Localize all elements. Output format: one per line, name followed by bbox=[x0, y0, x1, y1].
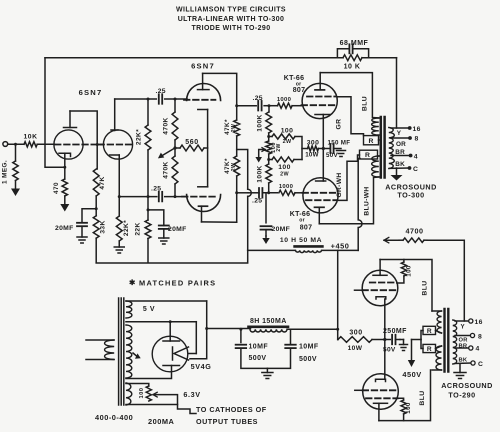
resistor 470 cathode V1 bbox=[64, 167, 66, 179]
svg-text:200MA: 200MA bbox=[148, 417, 174, 426]
TO-290 primary upper bbox=[432, 310, 442, 312]
wire 33K to rail bbox=[95, 238, 97, 262]
resistor 47K bbox=[93, 169, 99, 196]
svg-text:6SN7: 6SN7 bbox=[191, 62, 215, 71]
resistor 300 10W TO-290 bbox=[337, 339, 339, 341]
svg-text:100K: 100K bbox=[257, 114, 264, 131]
KT-66 no1 grid dashed bbox=[302, 104, 336, 106]
svg-text:22K*: 22K* bbox=[123, 220, 130, 236]
V6 grid dashed bbox=[363, 389, 396, 391]
TO-300 tap C bbox=[390, 167, 409, 169]
10MF loop left bbox=[240, 329, 242, 342]
power transformer core bbox=[118, 298, 120, 405]
svg-text:MATCHED PAIRS: MATCHED PAIRS bbox=[139, 279, 216, 288]
stub to plate bar bbox=[169, 322, 171, 341]
TO-300 primary winding upper bbox=[372, 118, 379, 135]
plate node wire V2 to .25 upper bbox=[115, 98, 157, 100]
5V4G plate top bbox=[163, 340, 180, 342]
svg-text:R: R bbox=[427, 328, 432, 335]
V4 plate wire bbox=[202, 221, 237, 223]
TO-290 core bbox=[443, 309, 445, 372]
resistor box R lower bbox=[360, 150, 378, 159]
wire .25 lower to V4 grid bbox=[165, 196, 187, 198]
V5 plate wire to TO-290 bbox=[380, 260, 432, 312]
TO-290 tap C bbox=[455, 362, 471, 365]
resistor 100 screen no1 bbox=[403, 260, 405, 263]
TO-290 R box feed bbox=[421, 331, 423, 340]
svg-text:10 K: 10 K bbox=[344, 64, 361, 71]
V5 grid stub bbox=[355, 289, 364, 291]
screen wire GR bbox=[337, 97, 363, 136]
wire 560 to cathodes bbox=[204, 147, 208, 149]
svg-text:2W: 2W bbox=[276, 143, 282, 151]
svg-text:Y: Y bbox=[397, 130, 402, 137]
ground 150MF bbox=[334, 148, 341, 150]
choke 10H 50MA bbox=[295, 245, 323, 248]
wire V3 plate to 47K rail bbox=[203, 73, 237, 120]
potentiometer 100 2W hum balance bbox=[266, 141, 272, 154]
svg-text:2W: 2W bbox=[280, 172, 289, 178]
resistor 470K lower bbox=[172, 156, 178, 184]
svg-text:47K*: 47K* bbox=[224, 158, 231, 174]
svg-text:8: 8 bbox=[478, 334, 482, 341]
svg-text:8H 150MA: 8H 150MA bbox=[250, 318, 287, 325]
B+ rail corner bbox=[96, 250, 248, 263]
tube V1 6SN7a envelope bbox=[54, 130, 83, 159]
svg-text:8: 8 bbox=[415, 136, 419, 143]
svg-text:10 H 50 MA: 10 H 50 MA bbox=[280, 237, 322, 244]
wire 22K to rail bbox=[147, 239, 149, 263]
resistor 22K lower bbox=[147, 197, 149, 220]
lower coupling tap to KT-66 no2 bbox=[237, 192, 248, 194]
svg-text:4700: 4700 bbox=[406, 227, 424, 236]
ground 250MF bbox=[396, 339, 401, 341]
svg-text:10W: 10W bbox=[305, 152, 319, 159]
tube V6 triode lower bbox=[363, 374, 399, 410]
resistor box R upper TO-290 bbox=[423, 326, 436, 334]
heater pot wiper bbox=[154, 395, 196, 414]
svg-text:2W: 2W bbox=[283, 139, 292, 145]
resistor 10K input bbox=[24, 142, 37, 147]
svg-text:470: 470 bbox=[53, 182, 60, 194]
wire 47K* lower to V4 plate bbox=[236, 176, 238, 222]
resistor 47K* lower 2W bbox=[236, 150, 238, 157]
TO-290 primary lower bbox=[436, 346, 442, 349]
svg-text:C: C bbox=[413, 166, 418, 173]
ground 20MF right bbox=[159, 237, 169, 239]
capacitor .25 upper coupling bbox=[158, 94, 160, 104]
svg-text:GR-WH: GR-WH bbox=[336, 172, 343, 197]
10MF loop right bbox=[267, 349, 290, 368]
resistor 22K* plate load bbox=[147, 99, 149, 125]
svg-text:.25: .25 bbox=[151, 185, 161, 192]
450V feed marker bbox=[412, 339, 422, 341]
svg-text:33K: 33K bbox=[100, 220, 107, 233]
V1 cathode bbox=[59, 153, 71, 156]
upper coupling tap bbox=[237, 105, 257, 107]
capacitor .25 to KT-66 no1 bbox=[257, 101, 259, 111]
V6 screen wire bbox=[398, 398, 404, 400]
TO-300 tap 8 bbox=[391, 137, 409, 139]
tube V3 6SN7 dome bbox=[187, 84, 221, 101]
feedback rail to output bbox=[362, 57, 397, 59]
svg-text:20MF: 20MF bbox=[272, 226, 291, 233]
svg-text:470K: 470K bbox=[163, 117, 170, 134]
svg-text:BLU-WH: BLU-WH bbox=[363, 186, 370, 215]
ground 470 bbox=[64, 196, 66, 204]
wire 100 no1 to cathode bus bbox=[295, 137, 302, 160]
input terminal bbox=[3, 142, 8, 147]
svg-text:R: R bbox=[369, 138, 374, 145]
svg-text:10MF: 10MF bbox=[249, 344, 269, 351]
svg-text:TRIODE WITH TO-290: TRIODE WITH TO-290 bbox=[191, 25, 270, 32]
KT-66 no2 grid dashed bbox=[303, 192, 337, 194]
svg-text:20MF: 20MF bbox=[55, 225, 74, 232]
wire 1000 to KT-66 no1 grid bbox=[292, 105, 303, 107]
resistor 100 2W cathode no1 bbox=[269, 136, 272, 138]
V5 grid dashed bbox=[362, 289, 395, 291]
svg-text:300: 300 bbox=[307, 140, 320, 147]
ground 20MF left bbox=[77, 236, 87, 238]
shared cathode vertical bbox=[207, 110, 209, 187]
V5 cathode bbox=[376, 297, 386, 299]
choke output wire bbox=[288, 328, 338, 330]
V2 plate bbox=[111, 129, 118, 131]
node 100K/100 pot bbox=[268, 133, 270, 141]
wire cathode to 22K* splitter bbox=[118, 197, 120, 216]
svg-text:100: 100 bbox=[281, 128, 294, 135]
V5 plate bbox=[373, 274, 387, 276]
svg-text:TO-290: TO-290 bbox=[448, 391, 475, 400]
svg-text:500V: 500V bbox=[299, 356, 317, 363]
svg-text:BK: BK bbox=[459, 358, 468, 364]
svg-text:ULTRA-LINEAR WITH TO-300: ULTRA-LINEAR WITH TO-300 bbox=[178, 16, 285, 23]
svg-text:20MF: 20MF bbox=[168, 226, 187, 233]
resistor 4700 bbox=[399, 239, 403, 241]
5V winding bbox=[126, 301, 132, 318]
svg-text:560: 560 bbox=[185, 139, 198, 146]
svg-text:TO-300: TO-300 bbox=[397, 191, 424, 200]
resistor 1000 grid no2 bbox=[279, 190, 295, 195]
svg-text:50V: 50V bbox=[326, 152, 338, 159]
wire 47K to 33K node bbox=[95, 196, 97, 216]
svg-text:10W: 10W bbox=[348, 345, 363, 352]
power transformer primary bbox=[86, 339, 114, 341]
balance chain top bbox=[268, 106, 270, 112]
capacitor 10MF first bbox=[236, 344, 247, 346]
V2 grid dashed bbox=[99, 144, 133, 146]
svg-text:WILLIAMSON TYPE CIRCUITS: WILLIAMSON TYPE CIRCUITS bbox=[176, 7, 286, 14]
B+ jog between 47K* pair bbox=[237, 136, 248, 189]
svg-text:150 MF: 150 MF bbox=[328, 140, 351, 147]
svg-text:Y: Y bbox=[461, 324, 466, 331]
TO-300 core bbox=[380, 117, 383, 178]
resistor 47K* upper 2W bbox=[234, 120, 240, 136]
wire 10K to V1 grid bbox=[37, 143, 54, 145]
KT-66 no1 cathode bbox=[315, 114, 330, 116]
V6 plate bbox=[374, 402, 388, 404]
V5 screen dashed bbox=[370, 282, 397, 284]
resistor 470K upper bbox=[174, 99, 176, 112]
node pot/100K lower bbox=[268, 154, 270, 164]
resistor 100 2W cathode no2 bbox=[269, 159, 272, 161]
svg-text:5V4G: 5V4G bbox=[191, 362, 212, 371]
TO-300 primary winding lower bbox=[372, 156, 379, 177]
svg-text:300: 300 bbox=[349, 330, 362, 337]
balance arrow driver bbox=[163, 149, 175, 156]
wire V1 plate link to V2 grid bbox=[70, 111, 97, 169]
svg-text:R: R bbox=[365, 152, 370, 159]
svg-text:BR: BR bbox=[395, 149, 405, 156]
capacitor 250MF 50V bbox=[391, 335, 393, 345]
capacitor 10MF second bbox=[285, 344, 296, 346]
capacitor 20MF right bbox=[148, 210, 164, 226]
TO-290 secondary ground bbox=[459, 364, 461, 373]
TO-300 tap 16 bbox=[391, 127, 409, 129]
tube 5V4G envelope bbox=[152, 336, 188, 372]
hop over lower grid wire bbox=[248, 189, 252, 196]
svg-text:+450: +450 bbox=[331, 242, 350, 251]
V1 grid dashed bbox=[55, 144, 103, 146]
HV center tap arrow bbox=[133, 353, 137, 357]
capacitor 68 MMF bbox=[337, 49, 348, 58]
resistor 33K bbox=[93, 216, 99, 238]
TO-300 secondary winding bbox=[389, 128, 395, 169]
6.3V bottom lead bbox=[126, 404, 178, 406]
svg-text:10MF: 10MF bbox=[299, 344, 319, 351]
svg-text:6SN7: 6SN7 bbox=[79, 88, 103, 97]
TO-290 tap 4 bbox=[455, 347, 469, 349]
resistor box R lower TO-290 bbox=[423, 344, 436, 352]
resistor 560 bbox=[175, 147, 180, 149]
tube V5 triode upper bbox=[362, 270, 398, 306]
tube V4 6SN7 bowl bbox=[187, 195, 221, 212]
KT-66 no2 cathode bbox=[316, 180, 326, 182]
pot wiper to ground arrow bbox=[259, 150, 265, 158]
svg-text:16: 16 bbox=[475, 319, 483, 326]
resistor 10K feedback bbox=[343, 55, 362, 61]
svg-text:BK: BK bbox=[395, 161, 405, 168]
feedback line into V1 cathode bbox=[45, 58, 65, 168]
svg-text:100: 100 bbox=[406, 265, 413, 277]
wire input to 10K bbox=[8, 143, 24, 145]
svg-text:250MF: 250MF bbox=[383, 328, 407, 335]
V6 grid stub bbox=[355, 389, 364, 391]
wire 1000 to KT-66 no2 grid bbox=[295, 192, 304, 194]
V4 cathode bbox=[198, 186, 208, 188]
V3 cathode bbox=[198, 109, 208, 111]
V6 plate wire to TO-290 bottom bbox=[379, 370, 431, 421]
wire choke to +450 bbox=[322, 249, 358, 251]
potentiometer 100 heater bbox=[146, 386, 151, 401]
HV bottom wire bbox=[126, 366, 172, 379]
TO-300 tap 4 bbox=[391, 155, 410, 157]
resistor 100 screen no2 bbox=[401, 400, 406, 414]
svg-text:BLU: BLU bbox=[362, 96, 369, 111]
svg-text:6.3V: 6.3V bbox=[183, 390, 200, 399]
svg-text:.25: .25 bbox=[252, 198, 262, 205]
svg-text:.25: .25 bbox=[156, 88, 166, 95]
svg-text:400-0-400: 400-0-400 bbox=[95, 413, 133, 422]
resistor 1000 grid no1 bbox=[278, 103, 293, 108]
svg-text:BR: BR bbox=[459, 343, 468, 349]
capacitor 20MF mid bbox=[265, 193, 267, 223]
capacitor 20MF left bbox=[82, 209, 96, 223]
svg-text:100: 100 bbox=[405, 402, 412, 414]
wire R upper to tap bbox=[378, 139, 380, 141]
svg-text:450V: 450V bbox=[402, 370, 421, 379]
tube KT-66 no2 bbox=[303, 178, 338, 213]
svg-text:C: C bbox=[478, 361, 483, 368]
svg-text:16: 16 bbox=[413, 126, 421, 133]
svg-text:.25: .25 bbox=[253, 95, 263, 102]
V6 screen dashed bbox=[366, 397, 398, 399]
ground 1 MEG bbox=[15, 181, 17, 189]
feedback wire to 16 tap bbox=[427, 240, 464, 321]
svg-text:1000: 1000 bbox=[279, 184, 294, 190]
rectifier right-side wire bbox=[190, 301, 207, 359]
svg-text:OR: OR bbox=[396, 141, 406, 148]
feedback arrow TO-290 bbox=[384, 237, 389, 240]
6.3V winding bbox=[126, 383, 132, 405]
svg-text:or: or bbox=[299, 218, 305, 224]
HV winding bbox=[126, 325, 132, 378]
V3 grid dashed bbox=[184, 99, 215, 101]
V3 plate bbox=[198, 89, 210, 91]
svg-text:100: 100 bbox=[139, 388, 145, 399]
resistor 1 MEG bbox=[15, 144, 17, 161]
svg-text:100: 100 bbox=[278, 164, 291, 171]
svg-text:ACROSOUND: ACROSOUND bbox=[441, 381, 493, 390]
V4 plate bbox=[199, 205, 208, 207]
rectifier cathode feed bbox=[195, 322, 197, 354]
svg-text:470K: 470K bbox=[163, 161, 170, 178]
svg-text:5 V: 5 V bbox=[143, 306, 155, 313]
svg-text:1 MEG.: 1 MEG. bbox=[2, 160, 9, 184]
resistor 100K lower bbox=[266, 164, 272, 183]
svg-text:500V: 500V bbox=[249, 355, 267, 362]
svg-text:807: 807 bbox=[293, 87, 306, 94]
svg-text:R: R bbox=[427, 346, 432, 353]
PS output to choke bbox=[207, 328, 251, 330]
KT-66 no1 plate bbox=[315, 89, 325, 91]
TO-290 tap 16 bbox=[455, 320, 469, 322]
resistor 100K upper bbox=[266, 112, 272, 133]
svg-text:100K: 100K bbox=[257, 165, 264, 182]
svg-text:47K*: 47K* bbox=[224, 119, 231, 135]
svg-text:BLU: BLU bbox=[419, 390, 426, 405]
KT-66 no1 plate wire to transformer bbox=[320, 73, 379, 118]
svg-text:4: 4 bbox=[414, 154, 418, 161]
svg-text:✱: ✱ bbox=[129, 278, 136, 287]
450 drop to PS bbox=[337, 250, 339, 339]
TO-300 secondary ground bbox=[396, 168, 398, 175]
V6 cathode bbox=[376, 379, 386, 381]
screen wire GR-WH bbox=[339, 155, 360, 200]
capacitor .25 lower coupling bbox=[158, 192, 160, 202]
5V4G cathode arrow bbox=[189, 353, 197, 355]
tube KT-66 no1 bbox=[302, 83, 337, 118]
TO-290 secondary bbox=[453, 320, 457, 364]
svg-text:68 MMF: 68 MMF bbox=[340, 40, 369, 47]
KT-66 no1 screen dashed bbox=[307, 96, 336, 98]
cathode output wire to .25 lower bbox=[119, 196, 157, 198]
svg-text:807: 807 bbox=[300, 225, 313, 232]
wire .25 to V3 grid bbox=[165, 98, 187, 100]
svg-text:10K: 10K bbox=[24, 134, 38, 141]
balance chain bottom to lower grid wire bbox=[268, 183, 270, 193]
tube V2 6SN7b envelope bbox=[103, 130, 132, 159]
KT-66 no2 plate bbox=[315, 206, 325, 208]
V1 plate bbox=[64, 127, 77, 129]
wire to 1000 grid stopper no1 bbox=[264, 105, 277, 107]
svg-text:1000: 1000 bbox=[277, 97, 292, 103]
svg-text:22K*: 22K* bbox=[136, 129, 143, 145]
ground 22K* cathodyne bbox=[118, 241, 120, 247]
6.3V top lead bbox=[126, 384, 149, 387]
svg-text:BLU: BLU bbox=[422, 280, 429, 295]
svg-text:22K: 22K bbox=[135, 222, 142, 235]
resistor box R upper bbox=[364, 136, 379, 145]
5V4G plate bottom bbox=[163, 365, 180, 367]
svg-text:47K: 47K bbox=[99, 176, 106, 189]
resistor 22K* cathodyne cathode bbox=[116, 216, 122, 241]
B+ rail right bbox=[248, 249, 295, 251]
KT-66 no2 screen dashed bbox=[306, 199, 337, 201]
V2 cathode bbox=[110, 154, 120, 156]
resistor 300 10W bias bbox=[302, 148, 308, 150]
capacitor .25 to KT-66 no2 bbox=[258, 188, 260, 198]
feedback rail top bbox=[45, 57, 343, 59]
ground 10MF bbox=[266, 368, 268, 372]
feedback drop to 16 ohm tap bbox=[396, 58, 398, 128]
TO-290 tap 8 bbox=[455, 335, 470, 337]
5V top wire bbox=[126, 300, 207, 302]
wire R lower to tap bbox=[378, 155, 379, 157]
svg-text:OUTPUT TUBES: OUTPUT TUBES bbox=[196, 417, 258, 426]
450 feed to TO-300 CT bbox=[358, 159, 362, 251]
capacitor 150MF 50V bbox=[329, 144, 331, 153]
svg-text:TO CATHODES OF: TO CATHODES OF bbox=[196, 405, 267, 414]
KT-66 no2 plate wire to transformer bbox=[319, 177, 379, 224]
svg-text:4: 4 bbox=[476, 346, 480, 353]
B+ line to rail corner bbox=[247, 196, 249, 250]
svg-text:2W: 2W bbox=[231, 163, 237, 172]
junction 470K pair bbox=[174, 140, 176, 156]
5V bottom / HV top wire bbox=[126, 321, 196, 323]
svg-text:2W: 2W bbox=[231, 124, 237, 133]
wire 22K* down to node bbox=[147, 150, 149, 197]
V4 grid dashed bbox=[182, 196, 215, 198]
svg-text:GR: GR bbox=[336, 119, 343, 130]
